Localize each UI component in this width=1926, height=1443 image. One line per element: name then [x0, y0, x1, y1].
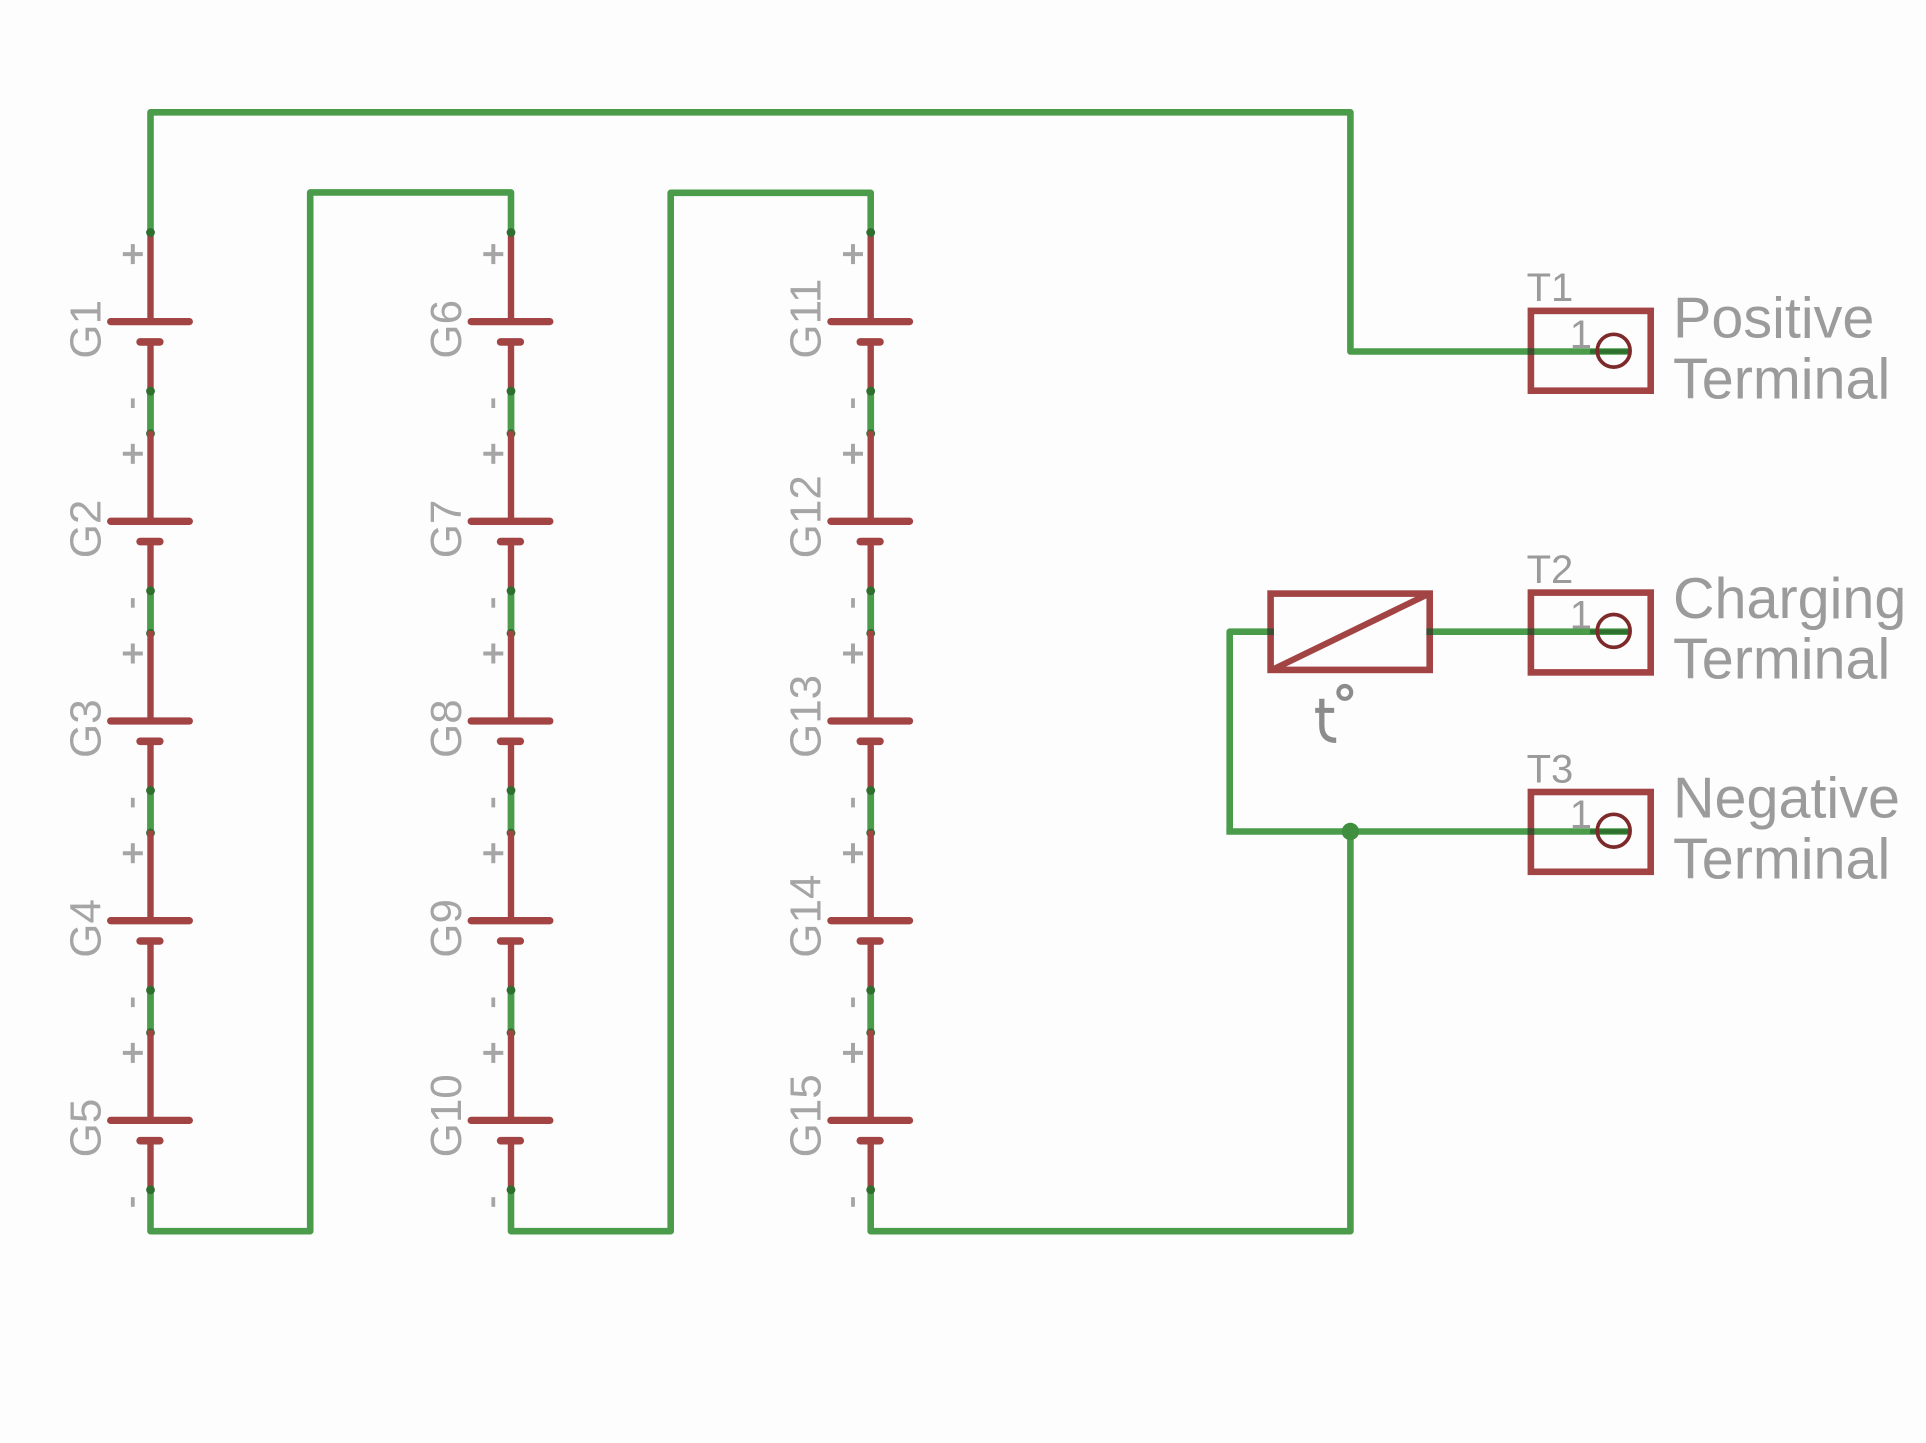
svg-text:G12: G12: [782, 475, 831, 558]
G15 positive plate: [831, 1117, 910, 1124]
G8 polarity -: [491, 798, 495, 808]
G6 negative plate: [501, 338, 521, 346]
G10 polarity +: [483, 1051, 503, 1055]
svg-text:G15: G15: [782, 1074, 831, 1157]
G8 positive plate: [471, 717, 550, 724]
T2 pin circle: [1597, 615, 1630, 648]
terminal T2 box: [1531, 593, 1651, 673]
T1 crossing: [1528, 348, 1535, 355]
T3 pin circle: [1597, 814, 1630, 847]
G6 polarity +: [483, 252, 503, 256]
G13 polarity +: [843, 652, 863, 656]
G12 positive plate: [831, 518, 910, 525]
G10 negative plate: [501, 1137, 521, 1145]
wire negative node to T3: [1226, 828, 1630, 835]
G7 - lead: [508, 542, 514, 590]
G5 - lead: [147, 1141, 153, 1189]
svg-text:G14: G14: [782, 875, 831, 958]
G14 positive plate: [831, 917, 910, 924]
node G4-: [146, 986, 155, 995]
G12 polarity -: [851, 598, 855, 608]
wire G5- to G6+ (riser): [151, 192, 512, 1231]
wire G11- to G12+: [867, 390, 874, 434]
svg-text:Terminal: Terminal: [1673, 347, 1890, 411]
battery G11: [782, 232, 910, 408]
G7 positive plate: [471, 518, 550, 525]
G5 + lead: [147, 1030, 153, 1120]
thermistor diagonal: [1275, 594, 1429, 669]
G13 positive plate: [831, 717, 910, 724]
G11 negative plate: [860, 338, 880, 346]
svg-text:G2: G2: [62, 500, 111, 559]
svg-text:G11: G11: [782, 279, 831, 359]
node G5+: [146, 1028, 155, 1037]
node G2+: [146, 429, 155, 438]
battery G2: [62, 431, 190, 607]
G1 positive plate: [111, 318, 190, 325]
thermistor value t°: [1315, 686, 1351, 740]
battery G13: [782, 631, 910, 807]
node G5- bottom: [146, 1185, 155, 1194]
wire G1+ riser to top rail: [151, 112, 1631, 351]
T1 pin circle: [1597, 334, 1630, 367]
G11 positive plate: [831, 318, 910, 325]
T1 pin 1 stub: [1590, 349, 1632, 353]
G11 + lead: [868, 232, 874, 322]
G6 positive plate: [471, 318, 550, 325]
G6 polarity -: [491, 398, 495, 408]
G15 negative plate: [860, 1137, 880, 1145]
node G13-: [866, 786, 875, 795]
battery G7: [422, 431, 550, 607]
node G12-: [866, 586, 875, 595]
G3 polarity -: [131, 798, 135, 808]
wire thermistor to T2: [1429, 628, 1630, 635]
thermistor wire crossings: [1267, 628, 1274, 635]
G12 polarity +: [843, 452, 863, 456]
battery G8: [422, 631, 550, 807]
G10 polarity -: [491, 1197, 495, 1207]
G3 positive plate: [111, 717, 190, 724]
svg-text:Terminal: Terminal: [1673, 827, 1890, 891]
wire G6- to G7+: [508, 390, 515, 434]
node G1+ top: [146, 228, 155, 237]
svg-text:G6: G6: [422, 300, 471, 359]
G1 - lead: [147, 342, 153, 390]
G8 negative plate: [501, 737, 521, 745]
node G8+: [507, 629, 516, 638]
G7 negative plate: [501, 538, 521, 546]
T2 crossing: [1528, 628, 1535, 635]
node G6-: [507, 387, 516, 396]
battery G15: [782, 1030, 910, 1206]
G9 + lead: [508, 831, 514, 921]
G1 negative plate: [140, 338, 160, 346]
wire G2- to G3+: [147, 590, 154, 634]
G4 polarity -: [131, 998, 135, 1008]
svg-text:G4: G4: [62, 899, 111, 958]
G11 polarity +: [843, 252, 863, 256]
G13 polarity -: [851, 798, 855, 808]
G4 negative plate: [140, 937, 160, 945]
wire G7- to G8+: [508, 590, 515, 634]
G2 negative plate: [140, 538, 160, 546]
G15 - lead: [868, 1141, 874, 1189]
svg-text:G8: G8: [422, 699, 471, 758]
wire G9- to G10+: [508, 989, 515, 1033]
G10 + lead: [508, 1030, 514, 1120]
G3 + lead: [147, 631, 153, 721]
G1 polarity -: [131, 398, 135, 408]
svg-text:G1: G1: [62, 300, 111, 359]
battery G3: [62, 631, 190, 807]
node G14-: [866, 986, 875, 995]
G4 polarity +: [123, 851, 143, 855]
G9 polarity +: [483, 851, 503, 855]
G10 - lead: [508, 1141, 514, 1189]
G3 - lead: [147, 741, 153, 789]
wire G15- to negative node: [871, 832, 1351, 1232]
G5 positive plate: [111, 1117, 190, 1124]
node G3+: [146, 629, 155, 638]
G1 polarity +: [123, 252, 143, 256]
G11 - lead: [868, 342, 874, 390]
svg-text:G3: G3: [62, 699, 111, 758]
node G7-: [507, 586, 516, 595]
G2 + lead: [147, 431, 153, 521]
wire G8- to G9+: [508, 790, 515, 834]
G8 - lead: [508, 741, 514, 789]
svg-text:G5: G5: [62, 1099, 111, 1158]
G15 polarity +: [843, 1051, 863, 1055]
wire G13- to G14+: [867, 790, 874, 834]
svg-text:G13: G13: [782, 675, 831, 758]
battery G9: [422, 831, 550, 1007]
node G15- bottom: [866, 1185, 875, 1194]
battery G4: [62, 831, 190, 1007]
G13 + lead: [868, 631, 874, 721]
G14 negative plate: [860, 937, 880, 945]
G12 - lead: [868, 542, 874, 590]
junction negative node: [1342, 823, 1359, 840]
thermistor body: [1271, 594, 1430, 670]
node G3-: [146, 786, 155, 795]
node G12+: [866, 429, 875, 438]
G15 polarity -: [851, 1197, 855, 1207]
node G14+: [866, 829, 875, 838]
G4 + lead: [147, 831, 153, 921]
wire G4- to G5+: [147, 989, 154, 1033]
svg-text:G7: G7: [422, 500, 471, 559]
G8 + lead: [508, 631, 514, 721]
svg-text:T2: T2: [1527, 548, 1574, 592]
terminal T3 box: [1531, 792, 1651, 872]
node G1-: [146, 387, 155, 396]
G7 + lead: [508, 431, 514, 521]
svg-text:1: 1: [1570, 313, 1592, 357]
node G2-: [146, 586, 155, 595]
node G11+ top: [866, 228, 875, 237]
battery G6: [422, 232, 550, 408]
svg-text:Charging: Charging: [1673, 567, 1906, 631]
svg-text:G10: G10: [422, 1074, 471, 1157]
battery G5: [62, 1030, 190, 1206]
wire G1- to G2+: [147, 390, 154, 434]
node G10+: [507, 1028, 516, 1037]
node G15+: [866, 1028, 875, 1037]
svg-text:1: 1: [1570, 593, 1592, 637]
G14 - lead: [868, 941, 874, 989]
wire G10- to G11+ (riser): [511, 193, 871, 1231]
svg-text:Negative: Negative: [1673, 767, 1900, 831]
G5 polarity +: [123, 1051, 143, 1055]
G9 polarity -: [491, 998, 495, 1008]
G2 polarity +: [123, 452, 143, 456]
node G7+: [507, 429, 516, 438]
G1 + lead: [147, 232, 153, 322]
G9 negative plate: [501, 937, 521, 945]
node G9+: [507, 829, 516, 838]
terminal T1 box: [1531, 311, 1651, 391]
G4 positive plate: [111, 917, 190, 924]
node G13+: [866, 629, 875, 638]
G4 - lead: [147, 941, 153, 989]
G6 + lead: [508, 232, 514, 322]
T3 crossing: [1528, 828, 1535, 835]
G6 - lead: [508, 342, 514, 390]
G10 positive plate: [471, 1117, 550, 1124]
G14 + lead: [868, 831, 874, 921]
G3 polarity +: [123, 652, 143, 656]
node G6+ top: [507, 228, 516, 237]
battery G1: [62, 232, 190, 408]
G11 polarity -: [851, 398, 855, 408]
svg-text:G9: G9: [422, 899, 471, 958]
battery G10: [422, 1030, 550, 1206]
G9 - lead: [508, 941, 514, 989]
wire G14- to G15+: [867, 989, 874, 1033]
T3 pin 1 stub: [1590, 829, 1632, 833]
G5 polarity -: [131, 1197, 135, 1207]
node G11-: [866, 387, 875, 396]
G8 polarity +: [483, 652, 503, 656]
node G4+: [146, 829, 155, 838]
G2 - lead: [147, 542, 153, 590]
G5 negative plate: [140, 1137, 160, 1145]
G14 polarity +: [843, 851, 863, 855]
svg-text:Positive: Positive: [1673, 287, 1874, 351]
G9 positive plate: [471, 917, 550, 924]
wire G3- to G4+: [147, 790, 154, 834]
G14 polarity -: [851, 998, 855, 1008]
G2 polarity -: [131, 598, 135, 608]
node G10- bottom: [507, 1185, 516, 1194]
G2 positive plate: [111, 518, 190, 525]
svg-text:T3: T3: [1527, 747, 1574, 791]
svg-text:Terminal: Terminal: [1673, 628, 1890, 692]
svg-text:1: 1: [1570, 793, 1592, 837]
G13 negative plate: [860, 737, 880, 745]
node G9-: [507, 986, 516, 995]
wire G12- to G13+: [867, 590, 874, 634]
wire T3 node up to thermistor: [1230, 632, 1271, 832]
node G8-: [507, 786, 516, 795]
G12 negative plate: [860, 538, 880, 546]
G7 polarity +: [483, 452, 503, 456]
G13 - lead: [868, 741, 874, 789]
G15 + lead: [868, 1030, 874, 1120]
T2 pin 1 stub: [1590, 630, 1632, 634]
svg-text:T1: T1: [1527, 266, 1574, 310]
battery G12: [782, 431, 910, 607]
G12 + lead: [868, 431, 874, 521]
G7 polarity -: [491, 598, 495, 608]
G3 negative plate: [140, 737, 160, 745]
battery G14: [782, 831, 910, 1007]
